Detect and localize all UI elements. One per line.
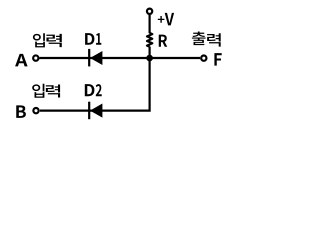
label R	[159, 35, 168, 47]
terminal +V (open circle)	[147, 9, 152, 14]
wire: +V terminal lead down to resistor R	[149, 15, 151, 33]
resistor R (zigzag)	[147, 33, 152, 47]
terminal A (open circle)	[33, 55, 38, 60]
label ryeok (input A)	[46, 34, 61, 47]
label chul (output)	[192, 31, 206, 45]
diode D2 triangle (anode, pointing left)	[90, 104, 102, 118]
diode D1 cathode bar	[88, 49, 90, 67]
label F	[214, 53, 221, 66]
diode D2 cathode bar	[88, 102, 90, 120]
wire: main horizontal from terminal A through D1 and junction to terminal F	[40, 57, 201, 59]
diode D1 triangle (anode, pointing left)	[90, 51, 102, 65]
label plus of +V	[158, 16, 165, 23]
node: junction dot (R / D1 / D2 / output F)	[146, 55, 153, 62]
label ip (input B)	[32, 84, 44, 98]
wire: resistor R to junction node	[149, 47, 151, 59]
label A	[15, 54, 28, 67]
wire: junction node down and left to diode D2 (input B row)	[40, 58, 150, 111]
label ryeok (output)	[207, 33, 221, 46]
label D of D2	[85, 84, 95, 96]
label 2 of D2	[96, 84, 102, 96]
label ip (input A)	[33, 33, 45, 47]
label ryeok (input B)	[46, 84, 60, 97]
terminal B (open circle)	[33, 108, 38, 113]
label 1 of D1	[96, 33, 101, 45]
label D of D1	[85, 33, 94, 45]
label V of +V	[165, 13, 174, 26]
label B	[16, 105, 26, 118]
terminal F / output (open circle)	[201, 56, 206, 61]
